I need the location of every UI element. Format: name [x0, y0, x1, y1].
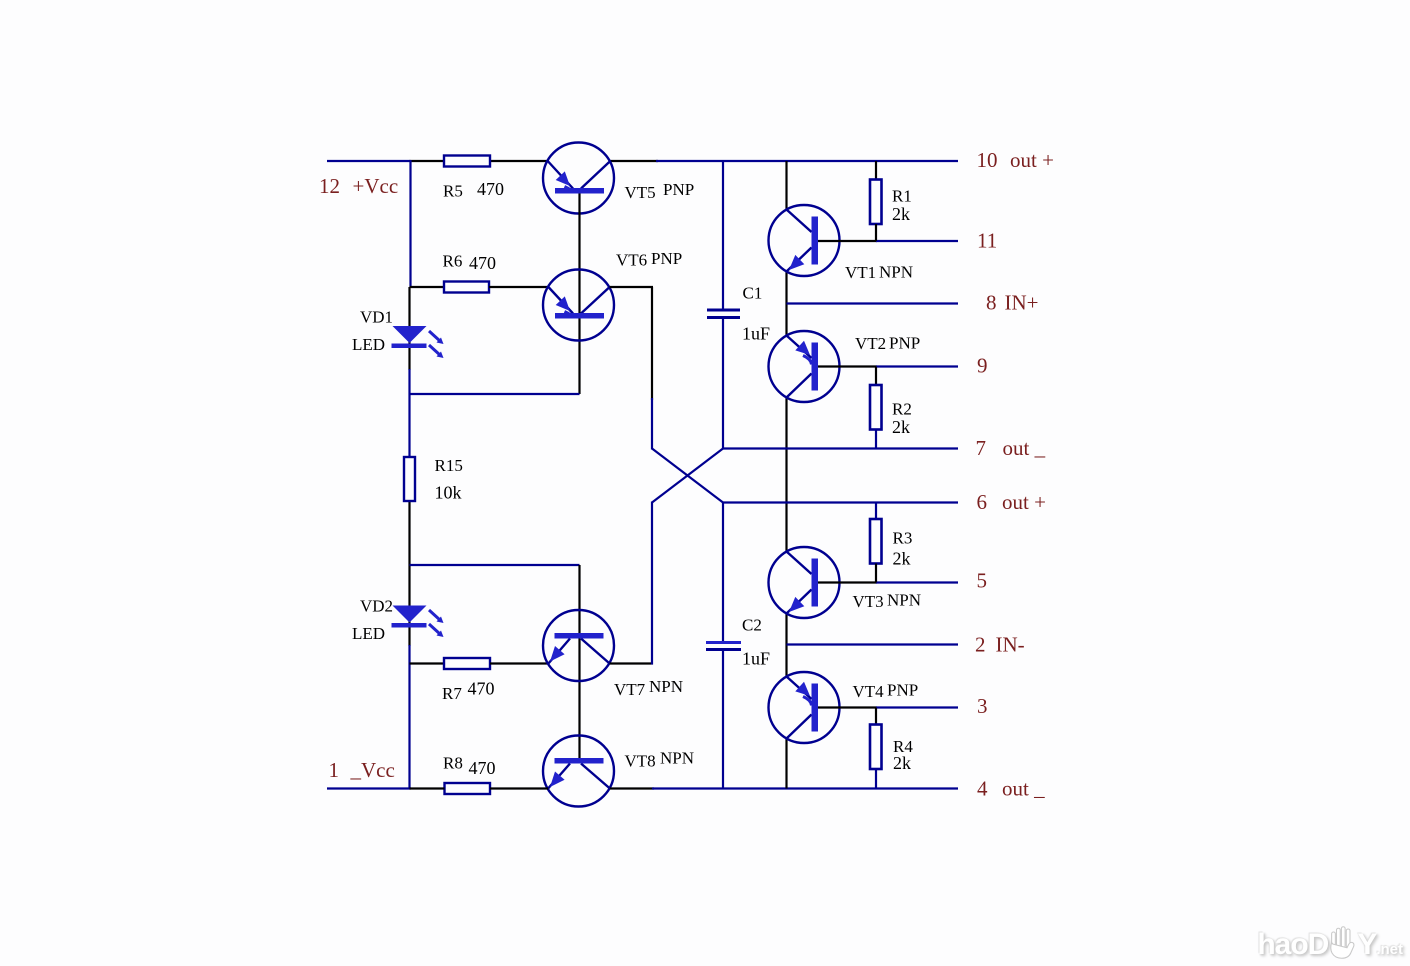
svg-text:NPN: NPN — [879, 263, 913, 282]
wire capacitor rail upper — [722, 161, 724, 450]
watermark haoDY.net — [1257, 926, 1403, 962]
transistor VT7 NPN — [543, 610, 614, 681]
svg-text:R5: R5 — [443, 182, 463, 201]
wire VT6 emitter return to left rail — [410, 393, 580, 395]
svg-text:12: 12 — [319, 174, 340, 198]
wire VT1-VT4 vertical rail segments — [785, 161, 787, 789]
svg-text:out _: out _ — [1003, 436, 1046, 460]
svg-text:VT7: VT7 — [614, 680, 646, 699]
wire pin 8 IN+ — [787, 302, 959, 304]
LED VD2 — [392, 606, 444, 638]
svg-text:PNP: PNP — [663, 180, 694, 199]
resistor R7 — [444, 658, 490, 669]
pin 2 IN- label — [975, 633, 1025, 657]
wire R6 to VT6 — [489, 286, 548, 288]
wire -Vcc bottom rail (pin 1 to pin 4) — [327, 787, 958, 789]
pin 12 +Vcc label — [319, 174, 398, 198]
capacitor C1 — [707, 310, 740, 318]
svg-text:+Vcc: +Vcc — [353, 174, 399, 198]
svg-text:470: 470 — [469, 253, 496, 273]
wire left rail to VT7 top — [410, 564, 580, 566]
svg-text:R15: R15 — [435, 456, 463, 475]
svg-text:LED: LED — [352, 335, 385, 354]
VT8 label — [625, 749, 695, 771]
svg-text:VT3: VT3 — [853, 592, 884, 611]
resistor R6 — [444, 282, 489, 293]
wire VT1 base to pin 11 — [818, 240, 958, 242]
svg-text:9: 9 — [977, 354, 988, 378]
wire left rail to R6 — [410, 286, 445, 288]
wire +Vcc top rail (pin 12 to pin 10) — [327, 160, 958, 162]
svg-text:out _: out _ — [1002, 777, 1045, 801]
svg-text:6: 6 — [977, 490, 988, 514]
wire pin 2 IN- — [787, 643, 959, 645]
pin 7 out_ label — [976, 436, 1046, 460]
wire VT6 collector right then down to crossover — [610, 287, 653, 450]
svg-text:470: 470 — [468, 679, 495, 699]
transistor VT8 NPN — [543, 736, 614, 807]
svg-text:8: 8 — [986, 291, 997, 315]
wire R7 to VT7 — [490, 662, 548, 664]
wire crossover diagonal (VT6 to pin 6) — [652, 449, 723, 503]
svg-text:VT6: VT6 — [616, 251, 647, 270]
svg-text:7: 7 — [976, 436, 987, 460]
wire capacitor rail lower — [722, 502, 724, 790]
VT6 label — [616, 249, 682, 270]
svg-text:R1: R1 — [892, 187, 912, 206]
svg-text:VD2: VD2 — [360, 597, 393, 616]
VT7 label — [614, 677, 683, 699]
wire left rail to R7 — [410, 662, 445, 664]
pin 1 -Vcc label — [329, 758, 395, 782]
svg-text:VT2: VT2 — [855, 334, 886, 353]
svg-text:PNP: PNP — [889, 334, 920, 353]
VT1 label — [845, 263, 913, 283]
wire VT5 base to VT6 (vertical through VT6) — [578, 194, 580, 395]
svg-text:R8: R8 — [443, 754, 463, 773]
svg-text:R6: R6 — [443, 252, 463, 271]
svg-text:2k: 2k — [892, 204, 910, 224]
wire left vertical rail — [410, 160, 411, 789]
svg-text:C1: C1 — [743, 284, 763, 303]
svg-text:11: 11 — [977, 229, 997, 253]
resistor R5 — [444, 156, 490, 167]
svg-text:2: 2 — [975, 633, 986, 657]
resistor R4 — [870, 708, 882, 790]
resistor R15 — [404, 457, 415, 501]
svg-text:R7: R7 — [442, 684, 462, 703]
VD1 label — [352, 308, 393, 355]
svg-text:R3: R3 — [893, 529, 913, 548]
svg-text:470: 470 — [469, 758, 496, 778]
wire crossover diagonal (VT7 to pin 7) — [652, 449, 723, 503]
transistor VT4 PNP — [769, 672, 840, 743]
transistor VT3 NPN — [769, 547, 840, 618]
svg-text:1: 1 — [329, 758, 340, 782]
wire VT2 base to pin 9 — [818, 365, 958, 367]
pin 8 IN+ label — [986, 291, 1039, 315]
svg-text:2k: 2k — [893, 549, 911, 569]
VT2 label — [855, 334, 920, 354]
resistor R8 — [445, 783, 491, 794]
svg-text:10k: 10k — [435, 483, 462, 503]
wire VT3 base to pin 5 — [818, 581, 958, 583]
wire VT4 base to pin 3 — [818, 706, 958, 708]
svg-text:1uF: 1uF — [742, 649, 770, 669]
svg-text:NPN: NPN — [887, 591, 921, 610]
svg-text:5: 5 — [977, 569, 988, 593]
svg-text:1uF: 1uF — [742, 324, 770, 344]
VT5 label — [625, 180, 695, 202]
svg-text:470: 470 — [477, 179, 504, 199]
svg-text:4: 4 — [977, 777, 988, 801]
pin 4 out_ label — [977, 777, 1045, 801]
pin 6 out+ label — [977, 490, 1046, 514]
svg-text:out +: out + — [1002, 490, 1046, 514]
svg-text:2k: 2k — [892, 417, 910, 437]
VD2 label — [352, 597, 393, 644]
svg-text:C2: C2 — [742, 616, 762, 635]
transistor VT5 PNP — [543, 143, 614, 214]
svg-text:3: 3 — [977, 694, 988, 718]
svg-text:VT4: VT4 — [853, 682, 885, 701]
svg-text:IN+: IN+ — [1005, 291, 1039, 315]
resistor R3 — [870, 503, 882, 583]
transistor VT2 PNP — [769, 331, 840, 402]
capacitor C2 — [706, 643, 741, 650]
svg-text:LED: LED — [352, 624, 385, 643]
svg-text:2k: 2k — [893, 753, 911, 773]
svg-text:PNP: PNP — [887, 681, 918, 700]
wire VT7 chain vertical (through VT7 to VT8) — [578, 565, 580, 758]
VT4 label — [853, 681, 919, 702]
resistor R2 — [870, 367, 882, 450]
svg-text:NPN: NPN — [649, 677, 683, 696]
svg-text:_Vcc: _Vcc — [350, 758, 395, 782]
wire VT7 collector right then up to crossover — [610, 502, 653, 665]
transistor VT6 PNP — [543, 270, 614, 341]
svg-text:VT1: VT1 — [845, 263, 876, 282]
svg-text:NPN: NPN — [660, 749, 694, 768]
transistor VT1 NPN — [769, 205, 840, 276]
LED VD1 — [392, 326, 444, 358]
wire pin 6 out+ — [722, 501, 958, 503]
resistor R1 — [870, 161, 882, 241]
svg-text:VT8: VT8 — [625, 752, 656, 771]
pin 10 out+ label — [977, 148, 1054, 172]
svg-text:PNP: PNP — [651, 249, 682, 268]
wire pin 7 out_ — [722, 447, 958, 449]
svg-text:IN-: IN- — [996, 633, 1025, 657]
svg-text:VD1: VD1 — [360, 308, 393, 327]
svg-text:R2: R2 — [892, 400, 912, 419]
VT3 label — [853, 591, 922, 612]
svg-text:VT5: VT5 — [625, 183, 656, 202]
svg-text:out +: out + — [1010, 148, 1054, 172]
svg-text:10: 10 — [977, 148, 998, 172]
